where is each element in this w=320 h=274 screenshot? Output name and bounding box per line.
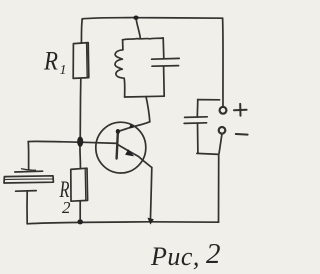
svg-text:2: 2 bbox=[62, 198, 71, 217]
svg-text:R: R bbox=[43, 47, 58, 76]
svg-text:2: 2 bbox=[206, 238, 221, 270]
svg-text:1: 1 bbox=[60, 63, 67, 78]
svg-text:Puc,: Puc, bbox=[150, 242, 200, 271]
